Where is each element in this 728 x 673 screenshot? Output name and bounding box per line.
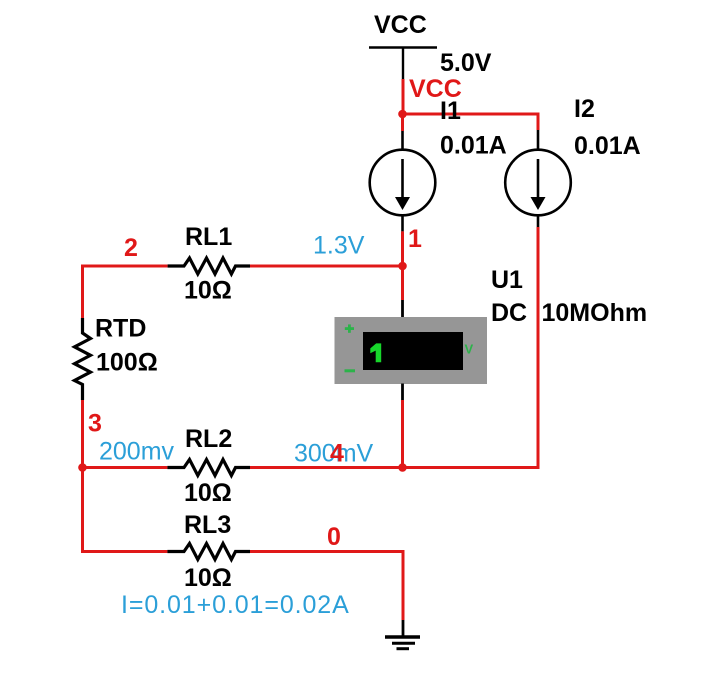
ground stem (black)	[402, 620, 405, 637]
wire RL3 row left segment (red)	[81, 552, 84, 554]
wire left column upper (red)	[81, 265, 84, 319]
svg-text:100Ω: 100Ω	[96, 349, 158, 377]
node 3 junction	[78, 463, 87, 472]
svg-text:DC: DC	[491, 299, 527, 327]
junction VCC node	[398, 110, 407, 119]
svg-text:I1: I1	[440, 97, 461, 125]
power symbol VCC	[369, 48, 437, 81]
svg-text:V: V	[465, 342, 474, 357]
svg-text:0.01A: 0.01A	[574, 132, 641, 160]
svg-text:2: 2	[124, 234, 138, 262]
resistor RL2	[167, 460, 250, 476]
svg-text:5.0V: 5.0V	[440, 49, 492, 77]
wire into I1 top (red)	[401, 114, 404, 131]
current source I2	[505, 150, 571, 216]
node 4 junction	[398, 463, 407, 472]
wire meter bottom to node 4 (red)	[401, 400, 404, 468]
svg-text:RTD: RTD	[95, 315, 146, 343]
resistor RTD	[75, 318, 91, 400]
svg-text:I=0.01+0.01=0.02A: I=0.01+0.01=0.02A	[121, 591, 350, 619]
wire I2 branch down to bottom row (red)	[403, 227, 538, 468]
wire I2 bottom stub (black)	[537, 215, 540, 227]
svg-text:10Ω: 10Ω	[184, 564, 232, 592]
svg-text:10Ω: 10Ω	[184, 277, 232, 305]
svg-text:RL2: RL2	[185, 425, 232, 453]
wire meter top (red)	[401, 266, 404, 300]
wire node2 row left segment (red)	[83, 265, 168, 268]
wire VCC stem red	[402, 79, 405, 114]
svg-text:RL1: RL1	[185, 223, 232, 251]
wire left column lower (red)	[81, 400, 84, 552]
wire I2 top stub (black)	[537, 130, 540, 150]
svg-text:U1: U1	[491, 266, 523, 294]
svg-text:200mv: 200mv	[99, 438, 175, 466]
svg-text:10Ω: 10Ω	[184, 479, 232, 507]
svg-text:I2: I2	[574, 95, 595, 123]
wire bottom row left segment (red)	[83, 466, 168, 469]
svg-text:RL3: RL3	[184, 511, 231, 539]
wire bottom row right segment (red)	[250, 466, 403, 469]
wire meter top stub (black)	[401, 300, 404, 318]
meter minus mark	[345, 369, 356, 372]
multimeter display	[363, 332, 463, 370]
resistor RL1	[168, 258, 250, 274]
wire into I2 top (red)	[537, 113, 540, 131]
svg-text:0: 0	[327, 523, 341, 551]
wire I1 top stub (black)	[401, 131, 404, 150]
wire RL3 row right segment (red)	[250, 552, 403, 621]
wire meter bottom stub (black)	[401, 384, 404, 401]
ground	[385, 637, 420, 649]
wire I1 to node 1 (red)	[401, 231, 404, 266]
meter reading 1	[370, 343, 381, 362]
svg-text:10MOhm: 10MOhm	[542, 299, 648, 327]
svg-text:4: 4	[330, 440, 344, 468]
wire node2 row right segment (red)	[250, 265, 403, 268]
node 1 junction	[398, 262, 407, 271]
resistor RL3	[167, 544, 250, 560]
svg-text:VCC: VCC	[374, 11, 427, 39]
multimeter U1 body	[335, 317, 488, 384]
svg-text:1: 1	[408, 225, 422, 253]
current source I1	[370, 150, 436, 216]
wire I1 bottom stub (black)	[401, 215, 404, 231]
svg-text:0.01A: 0.01A	[440, 132, 507, 160]
meter plus mark	[345, 327, 354, 330]
svg-text:1.3V: 1.3V	[313, 232, 365, 260]
wire top horizontal node VCC to I2	[403, 113, 538, 116]
svg-text:3: 3	[88, 410, 102, 438]
